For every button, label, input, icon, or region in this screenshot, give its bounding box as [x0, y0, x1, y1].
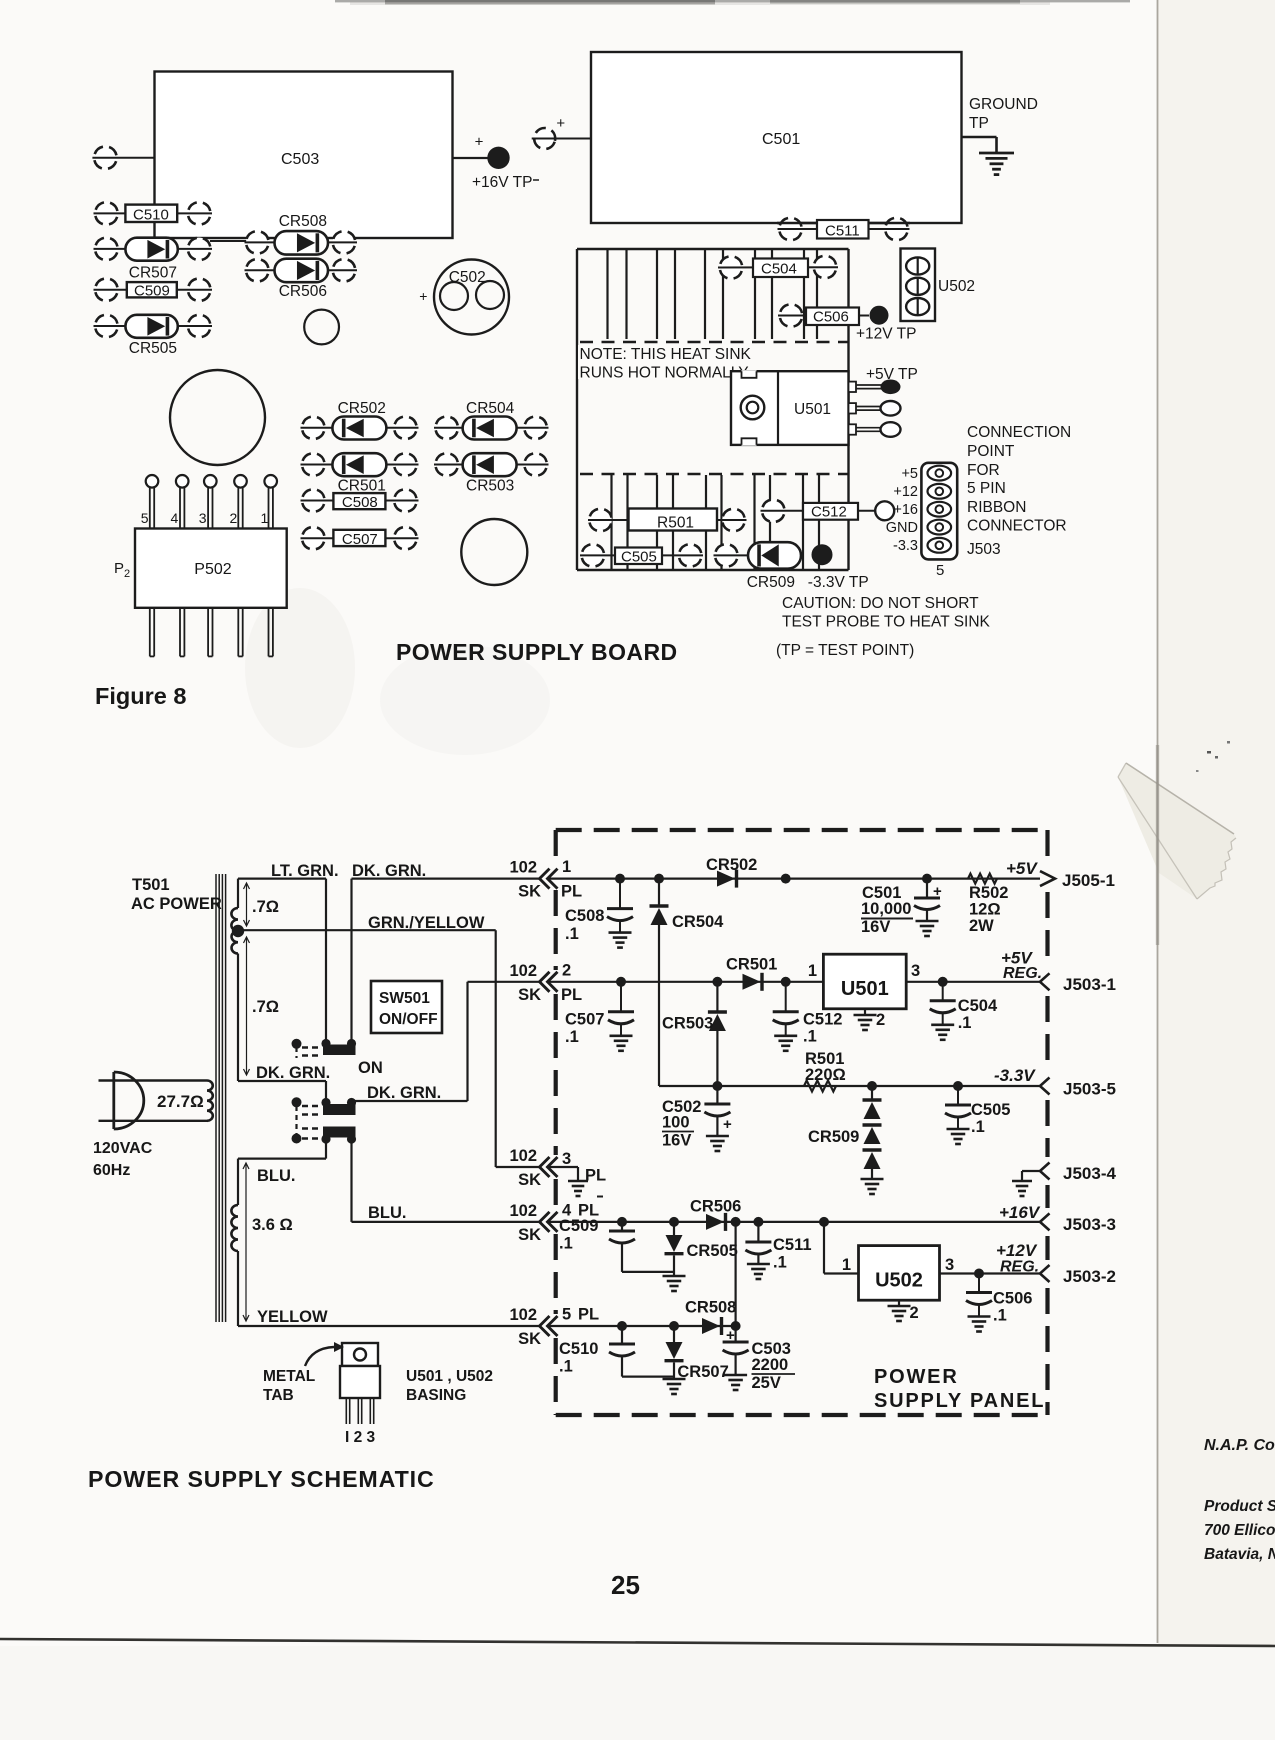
svg-text:3: 3 — [199, 510, 207, 526]
svg-text:+16: +16 — [893, 502, 918, 518]
label J503-2 — [1063, 1267, 1116, 1286]
node (CR503 bottom / C502) — [712, 1081, 722, 1091]
switch pole 1 (ON) — [292, 1039, 383, 1077]
svg-text:2: 2 — [876, 1011, 885, 1029]
svg-text:+: + — [475, 134, 484, 151]
capacitor C511 — [776, 215, 910, 243]
svg-text:J503-2: J503-2 — [1063, 1267, 1116, 1286]
svg-text:5: 5 — [562, 1306, 571, 1324]
svg-text:C505: C505 — [621, 549, 657, 566]
capacitor C503 — [155, 72, 453, 239]
svg-text:25V: 25V — [752, 1374, 781, 1392]
svg-text:PL: PL — [561, 883, 582, 901]
diode CR502 — [706, 856, 757, 888]
mounting hole — [461, 519, 527, 585]
diode CR509 — [712, 541, 801, 591]
svg-text:+12: +12 — [893, 484, 918, 500]
svg-text:CR506: CR506 — [279, 283, 327, 300]
svg-text:CR508: CR508 — [685, 1299, 736, 1317]
svg-text:220Ω: 220Ω — [805, 1066, 846, 1084]
svg-text:+: + — [556, 115, 565, 132]
svg-text:3.6 Ω: 3.6 Ω — [252, 1216, 293, 1234]
svg-text:2: 2 — [124, 568, 130, 580]
output J503-2 — [996, 1241, 1050, 1282]
svg-text:+5V: +5V — [1006, 859, 1038, 878]
diode CR504 — [650, 879, 725, 1086]
svg-text:SW501: SW501 — [379, 990, 430, 1007]
capacitor C511 — [745, 1222, 811, 1279]
diode CR501 — [299, 450, 420, 494]
svg-text:J503: J503 — [967, 541, 1001, 558]
capacitor C508 — [565, 879, 633, 948]
svg-text:102: 102 — [509, 962, 537, 980]
node (C504 top) — [938, 977, 948, 987]
switch pole 3 — [292, 1127, 357, 1144]
svg-text:2: 2 — [910, 1304, 919, 1322]
label METAL TAB — [263, 1342, 344, 1404]
output +16V — [999, 1203, 1050, 1230]
title POWER SUPPLY BOARD — [396, 639, 678, 665]
capacitor C504 — [717, 253, 839, 282]
svg-text:J503-3: J503-3 — [1063, 1215, 1116, 1234]
svg-text:U501 , U502: U501 , U502 — [406, 1368, 493, 1385]
pad (C501 positive lead) — [531, 115, 591, 152]
node (C512 top) — [781, 977, 791, 987]
capacitor C506 — [966, 1274, 1032, 1332]
wire +5V REG rail — [548, 981, 1041, 983]
svg-text:700 Ellicott: 700 Ellicott — [1204, 1522, 1275, 1539]
svg-text:.1: .1 — [803, 1028, 817, 1046]
package basing drawing — [340, 1343, 380, 1446]
capacitor C507 (board) — [299, 524, 420, 552]
svg-text:C512: C512 — [803, 1011, 842, 1029]
capacitor C509 — [559, 1217, 674, 1272]
svg-text:.7Ω: .7Ω — [252, 998, 279, 1016]
svg-text:RIBBON: RIBBON — [967, 499, 1026, 516]
diode CR508 — [210, 213, 358, 257]
power supply panel dashed box — [556, 830, 1048, 1415]
svg-text:P: P — [114, 560, 124, 577]
svg-text:3: 3 — [911, 962, 920, 980]
capacitor C510 — [559, 1326, 674, 1377]
wire DK. GRN. (switch 2 output) — [352, 982, 541, 1102]
capacitor C509 — [92, 275, 213, 303]
svg-text:BASING: BASING — [406, 1387, 466, 1404]
svg-text:CR503: CR503 — [466, 478, 514, 495]
svg-text:.1: .1 — [971, 1118, 985, 1136]
output J503-5 — [994, 1066, 1050, 1095]
svg-text:C504: C504 — [761, 261, 797, 278]
svg-text:CONNECTION: CONNECTION — [967, 424, 1071, 441]
svg-text:J503-5: J503-5 — [1063, 1080, 1116, 1099]
svg-text:GROUND: GROUND — [969, 96, 1038, 113]
svg-text:P502: P502 — [194, 561, 231, 578]
svg-text:PL: PL — [578, 1306, 599, 1324]
wire +5V rail — [548, 877, 1041, 879]
node (C506 top) — [974, 1269, 984, 1279]
capacitor C501 — [591, 52, 962, 223]
svg-text:25: 25 — [611, 1570, 640, 1600]
svg-text:2200: 2200 — [752, 1356, 789, 1374]
svg-text:RUNS HOT NORMALLY: RUNS HOT NORMALLY — [580, 365, 749, 382]
node (C503 line top) — [731, 1217, 741, 1227]
connector 102 SK 5 PL — [509, 1306, 599, 1349]
svg-text:I 2 3: I 2 3 — [345, 1429, 376, 1446]
svg-text:YELLOW: YELLOW — [257, 1308, 328, 1326]
svg-text:TEST PROBE TO HEAT SINK: TEST PROBE TO HEAT SINK — [782, 614, 991, 631]
switch SW501 box label — [371, 981, 442, 1033]
svg-text:100: 100 — [662, 1114, 690, 1132]
svg-text:POWER SUPPLY BOARD: POWER SUPPLY BOARD — [396, 639, 678, 665]
svg-text:3: 3 — [562, 1150, 571, 1168]
svg-text:+16V TP: +16V TP — [472, 174, 532, 191]
label U501 U502 BASING — [406, 1368, 493, 1404]
svg-text:+16V: +16V — [999, 1203, 1041, 1222]
svg-text:PL: PL — [585, 1167, 606, 1185]
svg-text:R502: R502 — [969, 884, 1008, 902]
output J503-1 — [1001, 949, 1050, 991]
diode CR505 — [663, 1222, 738, 1291]
svg-text:C512: C512 — [811, 504, 847, 521]
svg-text:U501: U501 — [841, 978, 889, 1000]
svg-text:C501: C501 — [762, 131, 800, 148]
label: connection point — [967, 424, 1071, 558]
resistor R501 — [586, 506, 747, 534]
wire +12V REG — [940, 1272, 1041, 1274]
resistor R501 — [804, 1050, 846, 1092]
capacitor C505 — [579, 541, 705, 569]
diode CR501 — [726, 956, 777, 991]
capacitor C502 (board) — [419, 260, 509, 335]
svg-text:CR504: CR504 — [672, 913, 724, 931]
svg-text:CR507: CR507 — [677, 1363, 728, 1381]
node (C507 top) — [616, 977, 626, 987]
svg-text:1: 1 — [808, 962, 817, 980]
svg-text:+: + — [723, 1116, 732, 1133]
capacitor C512 — [759, 497, 894, 525]
test point -3.3V TP — [808, 544, 869, 591]
svg-text:C503: C503 — [281, 151, 319, 168]
pad (C503 left lead) — [91, 143, 154, 171]
svg-text:C508: C508 — [342, 494, 378, 511]
capacitor C508 (board) — [299, 486, 420, 514]
svg-text:SK: SK — [518, 883, 541, 901]
svg-text:C504: C504 — [958, 997, 998, 1015]
svg-text:12Ω: 12Ω — [969, 901, 1001, 919]
svg-text:.1: .1 — [559, 1235, 573, 1253]
svg-text:+: + — [933, 883, 942, 900]
svg-text:+: + — [419, 288, 427, 304]
label J503-4 — [1063, 1164, 1116, 1183]
svg-text:U502: U502 — [875, 1270, 923, 1292]
wire BLU. (switch 3 output) — [352, 1141, 541, 1222]
svg-text:POWER SUPPLY SCHEMATIC: POWER SUPPLY SCHEMATIC — [88, 1466, 435, 1492]
switch pole 2 — [292, 1097, 357, 1115]
node (CR505 top) — [669, 1217, 679, 1227]
svg-text:C505: C505 — [971, 1101, 1010, 1119]
wire -3.3V rail — [659, 1085, 1040, 1087]
ground J503-4 — [1012, 1163, 1050, 1197]
svg-text:FOR: FOR — [967, 462, 1000, 479]
svg-text:SUPPLY PANEL: SUPPLY PANEL — [874, 1390, 1045, 1412]
regulator U502 — [842, 1246, 954, 1301]
svg-text:DK. GRN.: DK. GRN. — [352, 862, 426, 880]
svg-text:+5: +5 — [901, 466, 918, 482]
winding 3.6 ohm — [231, 1159, 292, 1326]
svg-text:C506: C506 — [993, 1290, 1032, 1308]
svg-text:-3.3: -3.3 — [893, 538, 918, 554]
node (CR503 top) — [712, 977, 722, 987]
wire DK. GRN. (top) — [352, 862, 541, 1041]
winding .7 ohm (lower secondary) — [232, 931, 279, 1081]
svg-text:Product Serv: Product Serv — [1204, 1498, 1275, 1515]
svg-text:ON: ON — [358, 1059, 383, 1077]
resistor R502 — [968, 874, 1008, 935]
svg-text:120VAC: 120VAC — [93, 1140, 153, 1157]
svg-text:102: 102 — [509, 1147, 537, 1165]
node (CR507 top) — [669, 1321, 679, 1331]
label J503-5 — [1063, 1080, 1116, 1099]
test point +16V TP — [453, 134, 540, 192]
svg-text:ON/OFF: ON/OFF — [379, 1011, 438, 1028]
svg-text:-3.3V TP: -3.3V TP — [808, 574, 869, 591]
svg-text:METAL: METAL — [263, 1368, 315, 1385]
capacitor C512 — [773, 982, 843, 1051]
svg-text:N.A.P. Consu: N.A.P. Consu — [1204, 1437, 1275, 1454]
svg-text:C511: C511 — [825, 223, 860, 240]
svg-text:C511: C511 — [773, 1236, 812, 1254]
svg-text:.1: .1 — [565, 1028, 579, 1046]
node (C512 line top) — [781, 874, 791, 884]
svg-text:DK. GRN.: DK. GRN. — [256, 1064, 330, 1082]
svg-text:CR505: CR505 — [129, 340, 177, 357]
svg-text:Figure 8: Figure 8 — [95, 683, 186, 709]
svg-text:C509: C509 — [559, 1217, 598, 1235]
label J505-1 — [1062, 871, 1115, 890]
svg-text:BLU.: BLU. — [368, 1204, 407, 1222]
svg-text:.1: .1 — [773, 1254, 787, 1272]
ground GROUND TP — [962, 96, 1038, 175]
diode CR508 — [685, 1299, 736, 1336]
svg-text:T501: T501 — [132, 876, 170, 894]
svg-text:(TP = TEST POINT): (TP = TEST POINT) — [776, 642, 914, 659]
svg-text:2: 2 — [230, 510, 238, 526]
node (C505 top) — [953, 1081, 963, 1091]
svg-text:102: 102 — [509, 1202, 537, 1220]
svg-text:2: 2 — [562, 962, 571, 980]
capacitor C502 — [662, 1086, 732, 1151]
svg-text:1: 1 — [562, 858, 571, 876]
svg-text:.7Ω: .7Ω — [252, 898, 279, 916]
connector 102 SK 3 PL — [509, 1147, 606, 1189]
svg-text:CR504: CR504 — [466, 400, 515, 417]
svg-text:J503-4: J503-4 — [1063, 1164, 1116, 1183]
svg-text:AC POWER: AC POWER — [131, 895, 222, 913]
footer address — [1204, 1437, 1275, 1563]
svg-text:U501: U501 — [794, 401, 831, 418]
svg-text:CONNECTOR: CONNECTOR — [967, 518, 1067, 535]
svg-text:TAB: TAB — [263, 1387, 294, 1404]
ground U501 pin 2 — [854, 1009, 886, 1030]
svg-text:POWER: POWER — [874, 1366, 959, 1388]
svg-text:CR503: CR503 — [662, 1015, 713, 1033]
connector U502 — [901, 249, 976, 322]
svg-text:102: 102 — [509, 859, 537, 877]
mounting hole — [304, 310, 339, 345]
mounting hole — [170, 370, 265, 465]
svg-text:GND: GND — [886, 520, 918, 536]
page number 25 — [611, 1570, 640, 1600]
label POWER SUPPLY PANEL — [874, 1366, 1045, 1412]
svg-text:5: 5 — [141, 510, 149, 526]
svg-text:C508: C508 — [565, 907, 604, 925]
winding .7 ohm (upper secondary) — [231, 879, 279, 931]
svg-text:REG.: REG. — [1000, 1259, 1039, 1276]
svg-text:BLU.: BLU. — [257, 1167, 296, 1185]
connector 102 SK 2 PL — [509, 962, 582, 1005]
svg-text:C507: C507 — [565, 1011, 604, 1029]
svg-text:CAUTION: DO NOT SHORT: CAUTION: DO NOT SHORT — [782, 595, 979, 612]
svg-text:Batavia, Ne: Batavia, Ne — [1204, 1546, 1275, 1563]
svg-text:3: 3 — [945, 1256, 954, 1274]
test point +12V TP — [856, 306, 916, 343]
svg-text:POINT: POINT — [967, 443, 1015, 460]
svg-text:SK: SK — [518, 1171, 541, 1189]
node (C509 top) — [617, 1217, 627, 1227]
diode CR507 — [663, 1326, 729, 1394]
svg-text:REG.: REG. — [1003, 965, 1042, 982]
svg-text:+12V: +12V — [996, 1241, 1038, 1260]
svg-text:.1: .1 — [993, 1307, 1007, 1325]
svg-text:1: 1 — [842, 1256, 851, 1274]
svg-text:PL: PL — [561, 986, 582, 1004]
diode CR509 (3 in series) — [808, 1086, 884, 1194]
switch linkage — [295, 1047, 297, 1136]
node (CR504 top) — [654, 874, 664, 884]
svg-text:DK. GRN.: DK. GRN. — [367, 1084, 441, 1102]
svg-text:-3.3V: -3.3V — [994, 1066, 1036, 1085]
capacitor C501 — [861, 879, 942, 936]
wire DK. GRN. (switch 2 input) — [238, 1064, 330, 1101]
capacitor C504 — [930, 982, 998, 1040]
label J503-1 — [1063, 975, 1116, 994]
transformer T501 core — [131, 874, 226, 1322]
svg-text:C510: C510 — [559, 1340, 598, 1358]
svg-text:CR508: CR508 — [279, 213, 327, 230]
heat sink — [577, 249, 849, 570]
wire 5 PL rail — [548, 1325, 736, 1327]
regulator U501 — [808, 954, 920, 1009]
label: caution — [776, 595, 991, 659]
diode CR503 — [432, 450, 549, 494]
node (C501 top) — [922, 874, 932, 884]
connector 102 SK 1 PL — [509, 858, 582, 901]
diode CR506 — [690, 1198, 741, 1231]
svg-text:+: + — [726, 1327, 735, 1344]
test point +5V TP — [866, 366, 918, 383]
svg-text:J503-1: J503-1 — [1063, 975, 1116, 994]
ground (3 PL) — [548, 1167, 589, 1196]
node (CR509 top) — [867, 1081, 877, 1091]
caption Figure 8 — [95, 683, 186, 709]
diode CR507 — [92, 235, 213, 282]
connector P502 — [114, 475, 287, 656]
svg-text:CR507: CR507 — [129, 265, 177, 282]
AC plug 120VAC — [93, 1072, 153, 1179]
note: heat sink warning — [578, 345, 752, 382]
svg-text:C510: C510 — [133, 207, 169, 224]
svg-text:R501: R501 — [657, 515, 694, 532]
svg-text:NOTE: THIS HEAT SINK: NOTE: THIS HEAT SINK — [580, 346, 752, 363]
svg-text:CR509: CR509 — [808, 1128, 859, 1146]
svg-text:CR506: CR506 — [690, 1198, 741, 1216]
label J503-3 — [1063, 1215, 1116, 1234]
center tap node — [232, 925, 244, 937]
capacitor C510 — [92, 199, 213, 247]
svg-text:16V: 16V — [662, 1132, 691, 1150]
svg-text:TP: TP — [969, 115, 989, 132]
node (U502 feed) — [819, 1217, 829, 1227]
svg-text:J505-1: J505-1 — [1062, 871, 1115, 890]
svg-text:SK: SK — [518, 1226, 541, 1244]
capacitor C506 — [777, 301, 859, 329]
capacitor C505 — [945, 1086, 1010, 1144]
diode CR505 — [92, 312, 213, 357]
svg-text:GRN./YELLOW: GRN./YELLOW — [368, 914, 485, 932]
svg-text:C502: C502 — [449, 269, 486, 286]
regulator U501 — [731, 370, 901, 446]
svg-text:27.7Ω: 27.7Ω — [157, 1092, 204, 1111]
primary winding 27.7 ohm — [99, 1081, 213, 1121]
wire YELLOW — [238, 1308, 540, 1326]
node (C503 top) — [731, 1321, 741, 1331]
svg-text:C507: C507 — [342, 531, 378, 548]
node (C508 top) — [615, 874, 625, 884]
diode CR506 — [243, 256, 358, 300]
capacitor C507 — [565, 982, 634, 1051]
wire LT. GRN. — [238, 862, 339, 1041]
svg-text:SK: SK — [518, 986, 541, 1004]
svg-text:60Hz: 60Hz — [93, 1162, 130, 1179]
svg-text:C509: C509 — [134, 283, 170, 300]
wire U502 input — [824, 1222, 859, 1274]
svg-text:.1: .1 — [958, 1014, 972, 1032]
connector 102 SK 4 PL — [509, 1202, 599, 1244]
node (C510 top) — [617, 1321, 627, 1331]
svg-text:10,000: 10,000 — [861, 900, 911, 918]
svg-text:5 PIN: 5 PIN — [967, 480, 1006, 497]
svg-text:+5V TP: +5V TP — [866, 366, 918, 383]
output arrow J505-1 — [1006, 859, 1055, 886]
svg-text:C506: C506 — [813, 309, 849, 326]
diode CR503 — [662, 982, 727, 1086]
wire BLU. (switch 3 input) — [238, 1138, 326, 1185]
svg-text:U502: U502 — [938, 278, 975, 295]
svg-text:CR501: CR501 — [726, 956, 777, 974]
svg-text:CR502: CR502 — [706, 856, 757, 874]
diode CR504 — [432, 400, 549, 442]
svg-text:102: 102 — [509, 1306, 537, 1324]
node (C511 top) — [753, 1217, 763, 1227]
ground U502 pin 2 — [888, 1300, 919, 1322]
diode CR502 — [299, 400, 420, 442]
svg-text:.1: .1 — [565, 925, 579, 943]
title POWER SUPPLY SCHEMATIC — [88, 1466, 435, 1492]
svg-text:5: 5 — [936, 562, 944, 579]
wire +16V rail — [548, 1221, 1041, 1223]
svg-text:CR509: CR509 — [747, 574, 795, 591]
wire GRN./YELLOW — [238, 914, 540, 1167]
